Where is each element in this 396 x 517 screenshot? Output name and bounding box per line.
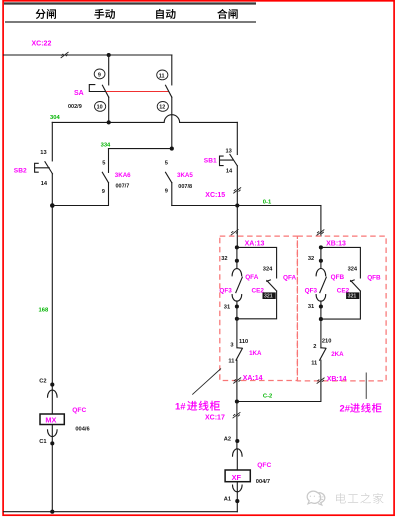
svg-text:13: 13 — [40, 150, 46, 156]
svg-text:QFA: QFA — [245, 274, 259, 281]
svg-text:002/9: 002/9 — [68, 104, 82, 110]
switch SA contact 11-12 lever — [166, 85, 172, 97]
svg-text:QFA: QFA — [283, 274, 297, 281]
svg-text:A1: A1 — [224, 496, 231, 502]
wire XF column lower — [236, 482, 238, 512]
wire SB1 drop from 304 rail — [236, 122, 238, 154]
title rule (under header) — [5, 21, 256, 23]
svg-text:11: 11 — [159, 73, 165, 79]
svg-text:SA: SA — [74, 90, 84, 97]
svg-text:C1: C1 — [39, 439, 46, 445]
svg-text:334: 334 — [101, 142, 111, 148]
breaker QF3 lever (cab1) — [236, 277, 243, 292]
svg-text:004/6: 004/6 — [75, 427, 89, 433]
svg-text:14: 14 — [226, 168, 233, 174]
coil MX box — [40, 414, 64, 425]
node junction 334 / SA pole 12 — [170, 147, 174, 151]
svg-text:XC:15: XC:15 — [205, 192, 225, 199]
svg-text:QFB: QFB — [367, 275, 381, 282]
wire 3KA6 upper stub — [108, 149, 110, 173]
svg-text:12: 12 — [159, 105, 165, 111]
watermark text 电工之家 — [336, 493, 346, 503]
contact QFB aux lever — [351, 280, 361, 291]
wire node 0-1 rail — [172, 205, 321, 207]
svg-text:XC:17: XC:17 — [205, 415, 225, 422]
wire XF stem — [236, 449, 238, 470]
wire cabinet2 exit to C-2 rail — [237, 360, 321, 401]
svg-text:XB:13: XB:13 — [326, 241, 346, 248]
svg-text:13: 13 — [226, 149, 232, 155]
break marker XB:14 — [317, 378, 325, 384]
svg-text:9: 9 — [165, 188, 168, 194]
plug contact upper arc (cab1) — [232, 269, 242, 276]
node junction QFB branch top — [319, 245, 323, 249]
pushbutton SB2 lever — [45, 162, 53, 174]
wire cabinet1 exit — [236, 360, 238, 401]
svg-text:SB1: SB1 — [204, 157, 217, 164]
plug contact upper arc (cab2) — [316, 268, 326, 275]
node terminal 31 (cab2) — [319, 304, 323, 308]
wire left riser below MX — [51, 425, 53, 512]
node terminal 31 (cab1) — [235, 304, 239, 308]
node terminal C2 — [50, 383, 54, 387]
contact 2KA lever — [320, 348, 326, 360]
svg-text:5: 5 — [102, 161, 105, 167]
terminal circle 12 — [157, 102, 168, 112]
watermark logo — [307, 491, 325, 505]
svg-text:5: 5 — [165, 161, 168, 167]
svg-text:007/8: 007/8 — [178, 184, 192, 190]
svg-text:168: 168 — [39, 308, 49, 314]
plug contact lower arc (cab1) — [232, 295, 242, 302]
svg-text:SB2: SB2 — [14, 167, 27, 174]
svg-text:1#: 1# — [175, 401, 186, 412]
svg-text:2KA: 2KA — [331, 351, 344, 358]
svg-text:31: 31 — [224, 304, 230, 310]
svg-text:004/7: 004/7 — [256, 479, 270, 485]
node junction top wire / SA pole 9 — [107, 53, 111, 57]
svg-text:10: 10 — [97, 105, 103, 111]
svg-text:304: 304 — [50, 115, 60, 121]
svg-text:14: 14 — [41, 181, 48, 187]
header label 分闸 — [36, 9, 46, 19]
node junction SB2 / bottom rail — [50, 203, 55, 208]
switch SA manual actuator — [89, 85, 106, 92]
wire plug stem upper (cab2) — [320, 247, 322, 268]
switch SA contact 9-10 lever — [102, 85, 108, 97]
breaker QF3 lever (cab2) — [320, 277, 327, 292]
svg-text:C2: C2 — [39, 378, 46, 384]
svg-text:11: 11 — [228, 358, 234, 364]
node junction 304 / SA pole — [107, 120, 111, 124]
plug contact arc below MX — [48, 430, 58, 437]
wire XC:22 top feeder — [4, 54, 172, 56]
node terminal 32 (cab1) — [235, 259, 239, 263]
break marker XC:22 — [61, 52, 69, 58]
wire SA pole 9-10 upper stub — [108, 55, 110, 85]
node terminal 32 (cab2) — [319, 259, 323, 263]
contact 3KA6 lever — [102, 172, 108, 182]
wire SB1 lower stub — [236, 166, 238, 206]
wire QFA branch top — [237, 247, 277, 278]
svg-text:2#: 2# — [340, 403, 351, 414]
wire cabinet1 entry — [236, 206, 238, 248]
svg-text:2: 2 — [313, 344, 316, 350]
break marker XC:17 — [233, 412, 241, 418]
svg-text:9: 9 — [102, 189, 105, 195]
svg-text:110: 110 — [239, 339, 248, 345]
wire node 304 rail with hop — [52, 115, 237, 123]
svg-text:11: 11 — [311, 361, 317, 367]
svg-text:XA:13: XA:13 — [245, 241, 265, 248]
SA mechanical link (red) — [106, 91, 169, 93]
svg-text:0-1: 0-1 — [263, 200, 272, 206]
svg-text:C-2: C-2 — [263, 393, 272, 399]
leader line 2#进线柜 — [365, 373, 367, 399]
wire cabinet2 mid column — [320, 319, 322, 348]
wire SB2 lower stub / left riser — [51, 174, 53, 414]
node junction QFA branch top — [235, 245, 239, 249]
pushbutton SB1 lever — [230, 154, 237, 165]
svg-text:XC:22: XC:22 — [32, 41, 52, 48]
label 321 inverted (cab2) — [346, 292, 359, 299]
svg-text:321: 321 — [348, 294, 357, 300]
svg-text:32: 32 — [308, 256, 314, 262]
svg-text:210: 210 — [322, 339, 332, 345]
svg-text:MX: MX — [45, 416, 56, 425]
wire 3KA6 lower stub — [52, 183, 108, 206]
header label 手动 — [94, 9, 104, 19]
wire 3KA5 lower stub — [171, 183, 173, 206]
break marker XC:15 — [233, 187, 241, 193]
wire cabinet1 mid column — [236, 319, 238, 348]
enclosure 1#进线柜 (dashed) — [220, 236, 298, 380]
svg-text:3KA5: 3KA5 — [177, 172, 193, 179]
terminal circle 11 — [157, 70, 168, 80]
coil XF box — [225, 470, 250, 482]
node junction SB1 / 0-1 rail — [235, 203, 239, 207]
svg-text:XA:14: XA:14 — [243, 375, 263, 382]
wire QFB branch bottom — [321, 291, 361, 319]
node terminal A1 — [235, 499, 239, 503]
svg-text:QF3: QF3 — [219, 288, 232, 295]
plug contact lower arc (cab2) — [316, 295, 326, 302]
svg-text:QFC: QFC — [72, 407, 86, 414]
header label 合闸 — [217, 9, 227, 19]
wire QFA branch bottom — [237, 291, 277, 319]
break marker XB:13 — [317, 230, 325, 236]
node terminal A2 — [235, 439, 239, 443]
svg-text:1KA: 1KA — [249, 350, 262, 357]
wire XF column upper — [236, 402, 238, 449]
title rule (top thick) — [4, 2, 256, 4]
wire plug stem lower (cab1) — [236, 301, 238, 319]
node junction QFA branch bottom — [235, 317, 239, 321]
pushbutton SB1 actuator — [220, 156, 234, 166]
svg-text:QFB: QFB — [331, 274, 345, 281]
svg-text:324: 324 — [263, 267, 273, 273]
plug contact arc below XF — [233, 485, 243, 492]
wire SA pole 9-10 lower stub — [108, 97, 110, 122]
label 321 inverted (cab1) — [263, 292, 276, 299]
svg-text:QF3: QF3 — [305, 288, 318, 295]
plug contact arc above XF — [233, 449, 243, 456]
svg-text:XB:14: XB:14 — [327, 376, 347, 383]
svg-text:32: 32 — [221, 256, 227, 262]
terminal circle 9 — [94, 69, 105, 79]
svg-text:3KA6: 3KA6 — [115, 172, 131, 179]
svg-text:QFC: QFC — [257, 462, 271, 469]
node junction C-2 rail — [235, 399, 239, 403]
wire plug stem lower (cab2) — [320, 301, 322, 319]
contact QFA aux lever — [267, 280, 277, 291]
leader line 1#进线柜 — [192, 369, 221, 395]
wire SB2 upper stub — [51, 122, 53, 160]
svg-text:321: 321 — [264, 294, 273, 300]
svg-text:A2: A2 — [224, 436, 231, 442]
wire node 334 rail — [109, 148, 172, 150]
contact 1KA lever — [236, 348, 242, 360]
wire plug stem upper (cab1) — [236, 247, 238, 268]
svg-text:XF: XF — [232, 473, 242, 482]
svg-text:9: 9 — [98, 72, 101, 78]
node junction bottom rail / left riser — [50, 510, 54, 514]
svg-text:31: 31 — [308, 304, 314, 310]
svg-text:007/7: 007/7 — [116, 183, 130, 189]
svg-text:3: 3 — [230, 342, 233, 348]
svg-text:CE2: CE2 — [252, 288, 265, 295]
enclosure 2#进线柜 (dashed) — [297, 236, 386, 381]
wire SA pole 11-12 lower stub — [171, 97, 173, 148]
svg-text:324: 324 — [348, 267, 358, 273]
pushbutton SB2 actuator — [35, 163, 50, 172]
wire SA pole 11-12 upper stub — [171, 55, 173, 85]
contact 3KA5 lever — [166, 172, 172, 182]
wire QFB branch top — [321, 247, 361, 278]
terminal circle 10 — [95, 102, 106, 112]
plug contact arc above MX — [48, 390, 58, 397]
header label 自动 — [156, 9, 164, 19]
node terminal C1 — [50, 441, 54, 445]
wire bottom return rail — [4, 511, 238, 513]
break marker XA:13 — [231, 229, 239, 235]
node junction QFB branch bottom — [319, 317, 323, 321]
wire riser to cabinet 2 — [320, 206, 322, 237]
break marker XA:14 — [233, 378, 241, 384]
